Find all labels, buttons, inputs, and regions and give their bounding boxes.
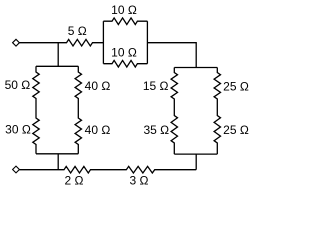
svg-text:40 Ω: 40 Ω: [85, 79, 111, 93]
svg-text:15 Ω: 15 Ω: [143, 79, 169, 93]
svg-text:25 Ω: 25 Ω: [223, 80, 249, 94]
svg-text:10 Ω: 10 Ω: [111, 3, 137, 17]
svg-text:10 Ω: 10 Ω: [111, 46, 137, 60]
svg-text:3 Ω: 3 Ω: [130, 174, 149, 188]
svg-text:25 Ω: 25 Ω: [223, 123, 249, 137]
svg-text:2 Ω: 2 Ω: [65, 174, 84, 188]
svg-text:40 Ω: 40 Ω: [85, 123, 111, 137]
svg-text:5 Ω: 5 Ω: [68, 24, 87, 38]
svg-text:35 Ω: 35 Ω: [143, 123, 169, 137]
svg-text:50 Ω: 50 Ω: [5, 78, 31, 92]
svg-text:30 Ω: 30 Ω: [5, 122, 31, 136]
